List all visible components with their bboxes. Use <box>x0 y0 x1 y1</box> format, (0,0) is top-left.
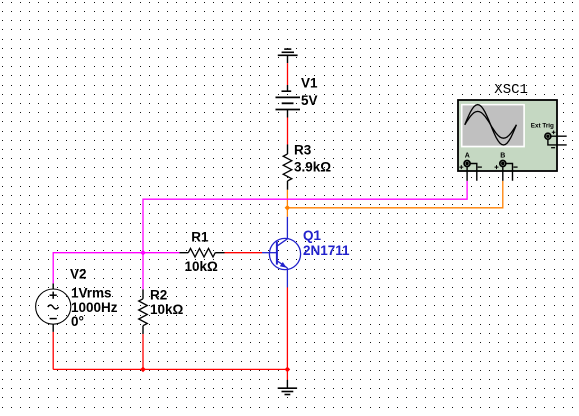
svg-text:V1: V1 <box>301 75 318 90</box>
terminal B minus pin <box>506 164 513 181</box>
svg-text:1000Hz: 1000Hz <box>71 300 118 315</box>
Ext Trig minus mark <box>551 147 555 149</box>
svg-text:Q1: Q1 <box>303 228 322 243</box>
wire: junction to R1 (magenta) <box>143 252 180 254</box>
svg-text:Ext Trig: Ext Trig <box>531 122 554 129</box>
wire: ground to V1 plus (red) <box>287 63 289 85</box>
terminal B <box>500 161 506 167</box>
junction emitter-ground rail (red) <box>285 367 291 373</box>
Q1 emitter arrow <box>280 262 287 268</box>
svg-text:3.9kΩ: 3.9kΩ <box>294 160 331 175</box>
Ext Trig plus mark <box>552 131 556 135</box>
Ext Trig minus pin <box>548 139 567 145</box>
svg-text:XSC1: XSC1 <box>494 82 528 98</box>
terminal A <box>464 161 470 167</box>
resistor R1 10k <box>180 248 225 257</box>
terminal A plus mark <box>459 165 463 169</box>
wire: V1 to R3 (red) <box>287 118 289 145</box>
scope waveform big sine <box>465 105 517 145</box>
wire: R2 to ground rail (red) <box>142 334 144 369</box>
scope waveform small sine <box>465 111 517 138</box>
wire: junction to collector (orange) <box>286 208 288 217</box>
wire: Q1 emitter to ground rail (red) <box>286 287 288 369</box>
svg-text:R2: R2 <box>150 287 167 302</box>
svg-text:0°: 0° <box>71 314 84 329</box>
junction base node (magenta) <box>140 250 146 256</box>
wire: junction down to R2 (magenta) <box>142 253 144 290</box>
svg-text:2N1711: 2N1711 <box>303 243 350 258</box>
wire: bottom ground rail (red) <box>53 368 287 370</box>
svg-text:V2: V2 <box>70 267 87 282</box>
svg-text:5V: 5V <box>301 93 318 108</box>
wire: rail to ground symbol (red) <box>286 369 288 380</box>
wire: R1 to Q1 base (red) <box>225 252 263 254</box>
Ext Trig plus pin <box>551 135 567 137</box>
svg-text:1Vrms: 1Vrms <box>71 286 112 301</box>
wire: V2 minus down to ground rail (red) <box>52 332 54 370</box>
oscilloscope XSC1 body <box>458 100 557 171</box>
ground GND bottom <box>278 380 297 395</box>
terminal B plus mark <box>495 165 499 169</box>
svg-text:10kΩ: 10kΩ <box>185 259 219 274</box>
svg-text:10kΩ: 10kΩ <box>150 302 184 317</box>
junction collector node (orange) <box>285 205 291 211</box>
Ext Trig terminal <box>545 133 551 139</box>
resistor R3 3.9k <box>283 145 292 190</box>
svg-text:R3: R3 <box>294 143 312 158</box>
junction R2-ground rail (red) <box>140 367 146 373</box>
svg-text:B: B <box>500 153 505 160</box>
terminal B plus pin <box>502 166 504 180</box>
XSC1 screen <box>463 105 524 145</box>
battery V1 <box>276 85 301 118</box>
svg-text:A: A <box>465 153 470 160</box>
ground GND top (inverted, above V1) <box>278 49 298 63</box>
terminal A minus pin <box>470 164 477 181</box>
wire: junction up and right to scope A (magenta) <box>143 181 467 253</box>
wire: R3 to junction (orange) <box>286 190 288 208</box>
terminal A plus pin <box>466 166 468 180</box>
wire: base row magenta, V2 to junction <box>53 253 143 284</box>
transistor Q1 2N1711 <box>262 217 301 288</box>
AC source V2 <box>36 284 71 332</box>
terminal B minus mark <box>513 166 517 168</box>
XSC1 screen frame <box>461 104 525 147</box>
resistor R2 10k <box>139 289 148 334</box>
svg-text:R1: R1 <box>191 230 209 245</box>
wire: junction to scope B (orange) <box>287 181 502 208</box>
terminal A minus mark <box>478 166 482 168</box>
